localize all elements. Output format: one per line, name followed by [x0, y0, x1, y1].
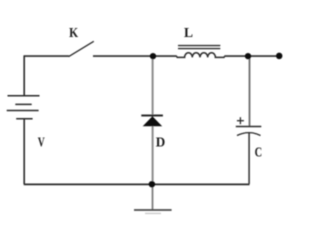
svg-text:L: L: [184, 26, 193, 41]
svg-text:C: C: [255, 146, 263, 161]
svg-text:K: K: [69, 26, 78, 41]
svg-text:D: D: [156, 136, 166, 151]
svg-text:V: V: [38, 135, 45, 150]
